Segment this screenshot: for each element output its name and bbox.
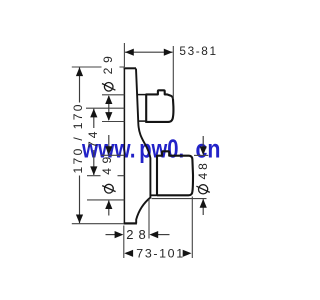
dimension 73-101 : right arrow pointing right [183, 250, 192, 257]
svg-text:cn: cn [196, 134, 221, 164]
dimension 74 : top tick (upper knob centerline) [86, 107, 124, 109]
watermark www. pw0. cn [81, 134, 220, 164]
dimension 73-101 : right extension line [191, 197, 193, 259]
svg-text:pw0.: pw0. [139, 134, 184, 164]
dimension dia 48 : top tick [194, 154, 208, 156]
svg-text:170 / 170: 170 / 170 [71, 104, 85, 173]
dimension dia 49 : bottom tick [87, 199, 124, 201]
svg-text:53-81: 53-81 [179, 44, 216, 58]
dimension dia 49 : lower arrow pointing up [105, 200, 112, 215]
dimension 53-81 : left extension line [123, 43, 125, 67]
dimension dia 48 : lower arrow pointing up [200, 199, 207, 215]
dimension dia 48 : upper arrow pointing down [200, 136, 207, 155]
dimension dia 49 : rotated text [102, 184, 115, 193]
dimension 53-81 : right extension line [172, 46, 174, 99]
dimension dia 29 : rotated text [102, 83, 115, 92]
dimension dia 49 : top tick [101, 154, 124, 156]
dimension 73-101 : left arrow pointing left [124, 250, 133, 257]
dimension 74 : dimension line with arrows [90, 109, 97, 176]
lower knob body (volume handle) [157, 151, 193, 195]
dimension dia 49 : upper arrow pointing down [105, 135, 112, 155]
lower knob collar bottom closure [151, 194, 157, 196]
dimension 170/170 : bottom tick [72, 223, 124, 225]
dimension 28 : left arrow pointing right [106, 231, 124, 238]
dimension dia 29 : bottom tick [102, 121, 124, 123]
dimension dia 48 : bottom tick [152, 198, 207, 200]
escutcheon plate outline [124, 68, 151, 223]
dimension dia 29 : double-headed arrow [105, 95, 112, 121]
dimension 28 : right extension line [148, 200, 150, 239]
dimension 28 : right arrow pointing left [149, 231, 169, 238]
dimension 28 : left extension line [123, 226, 125, 259]
dimension 74 : bottom tick (lower knob centerline) [87, 175, 124, 177]
dimension 53-81 : dimension line with outward arrows [125, 49, 173, 56]
dimension 170/170 : top tick [72, 66, 125, 68]
upper knob stem (cartridge neck) [138, 95, 146, 122]
dimension dia 48 : rotated text [196, 185, 209, 194]
dimension 170/170 : vertical dimension line [76, 67, 83, 223]
dimension dia 29 : top tick [102, 94, 124, 96]
upper knob body (thermostat handle) [146, 90, 173, 123]
